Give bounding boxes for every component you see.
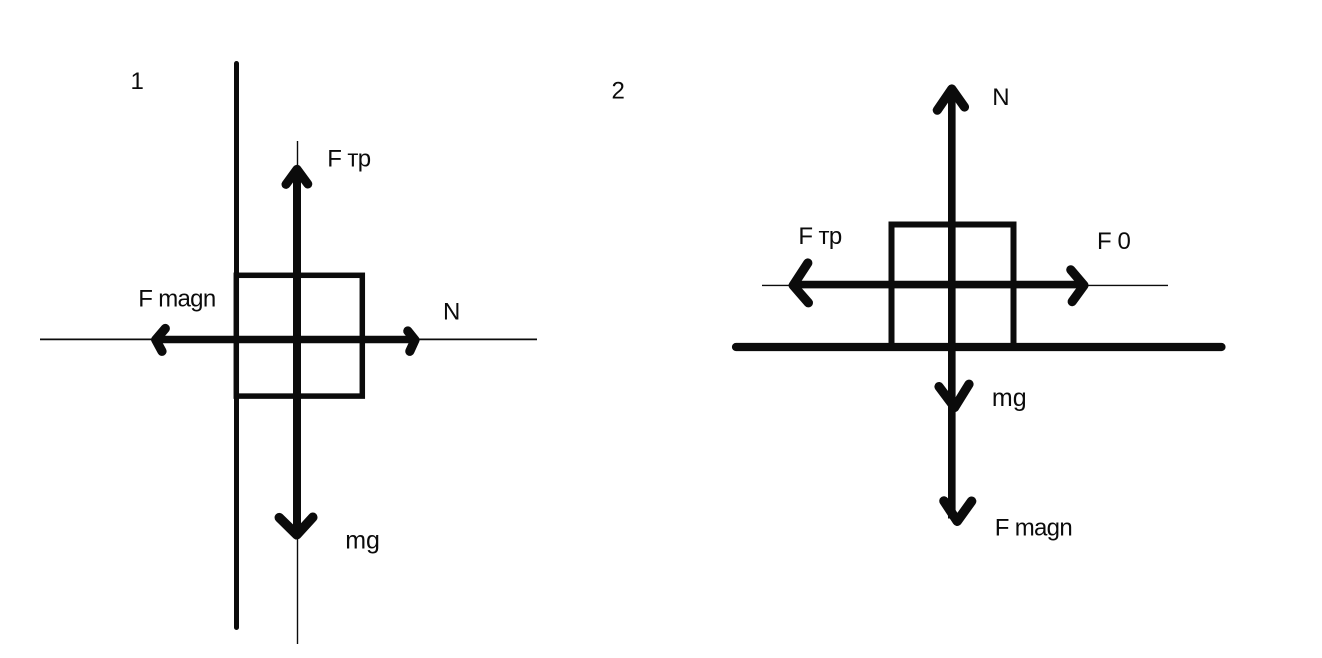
svg-text:N: N bbox=[992, 84, 1009, 111]
arrowhead up F tr (diagram 1) bbox=[286, 169, 308, 184]
wall line (diagram 1) bbox=[234, 64, 239, 628]
horizontal force shaft (diagram 2) bbox=[795, 281, 1080, 289]
svg-text:1: 1 bbox=[131, 68, 144, 95]
svg-text:2: 2 bbox=[612, 77, 625, 104]
svg-text:F magn: F magn bbox=[995, 514, 1072, 541]
block square (diagram 1) bbox=[236, 275, 362, 396]
svg-text:F тр: F тр bbox=[327, 145, 371, 172]
thin horizontal axis (diagram 1) bbox=[40, 338, 537, 340]
thin vertical axis (diagram 1) bbox=[297, 141, 299, 644]
thin horizontal axis (diagram 2) bbox=[762, 284, 1168, 286]
arrowhead left F tr (diagram 2) bbox=[793, 263, 808, 303]
arrowhead up N (diagram 2) bbox=[937, 89, 964, 110]
svg-text:N: N bbox=[443, 299, 460, 326]
arrowhead right N (diagram 1) bbox=[408, 331, 415, 351]
vertical force shaft (diagram 2) bbox=[948, 90, 956, 519]
arrowhead bottom F magn (diagram 2) bbox=[944, 501, 972, 521]
vertical force shaft (diagram 1) bbox=[293, 171, 301, 531]
arrowhead down mg (diagram 1) bbox=[279, 517, 313, 535]
floor line (diagram 2) bbox=[736, 343, 1222, 351]
svg-text:F 0: F 0 bbox=[1097, 228, 1131, 255]
svg-text:mg: mg bbox=[345, 527, 380, 555]
block square (diagram 2) bbox=[892, 225, 1014, 348]
arrowhead left F magn (diagram 1) bbox=[156, 329, 166, 352]
svg-text:F magn: F magn bbox=[138, 286, 215, 313]
arrowhead right F 0 (diagram 2) bbox=[1071, 270, 1084, 302]
arrowhead mid mg (diagram 2) bbox=[939, 384, 969, 407]
svg-text:mg: mg bbox=[992, 384, 1027, 412]
svg-text:F тр: F тр bbox=[798, 223, 842, 250]
horizontal force shaft (diagram 1) bbox=[158, 336, 411, 344]
